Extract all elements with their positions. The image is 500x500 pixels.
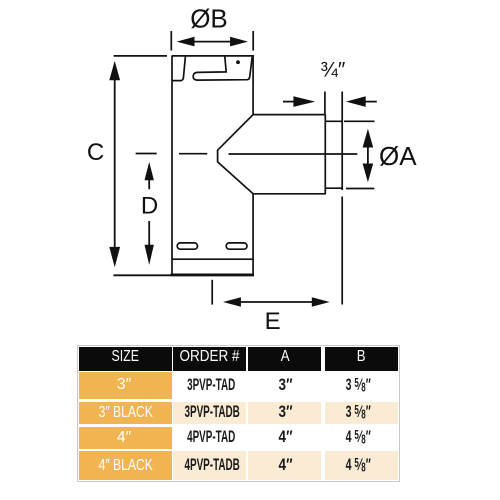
svg-text:ØA: ØA <box>379 141 417 171</box>
svg-text:ØB: ØB <box>190 4 228 34</box>
svg-text:E: E <box>265 308 281 335</box>
svg-text:C: C <box>87 139 104 166</box>
svg-text:D: D <box>141 193 158 220</box>
svg-text:¾″: ¾″ <box>320 58 346 81</box>
